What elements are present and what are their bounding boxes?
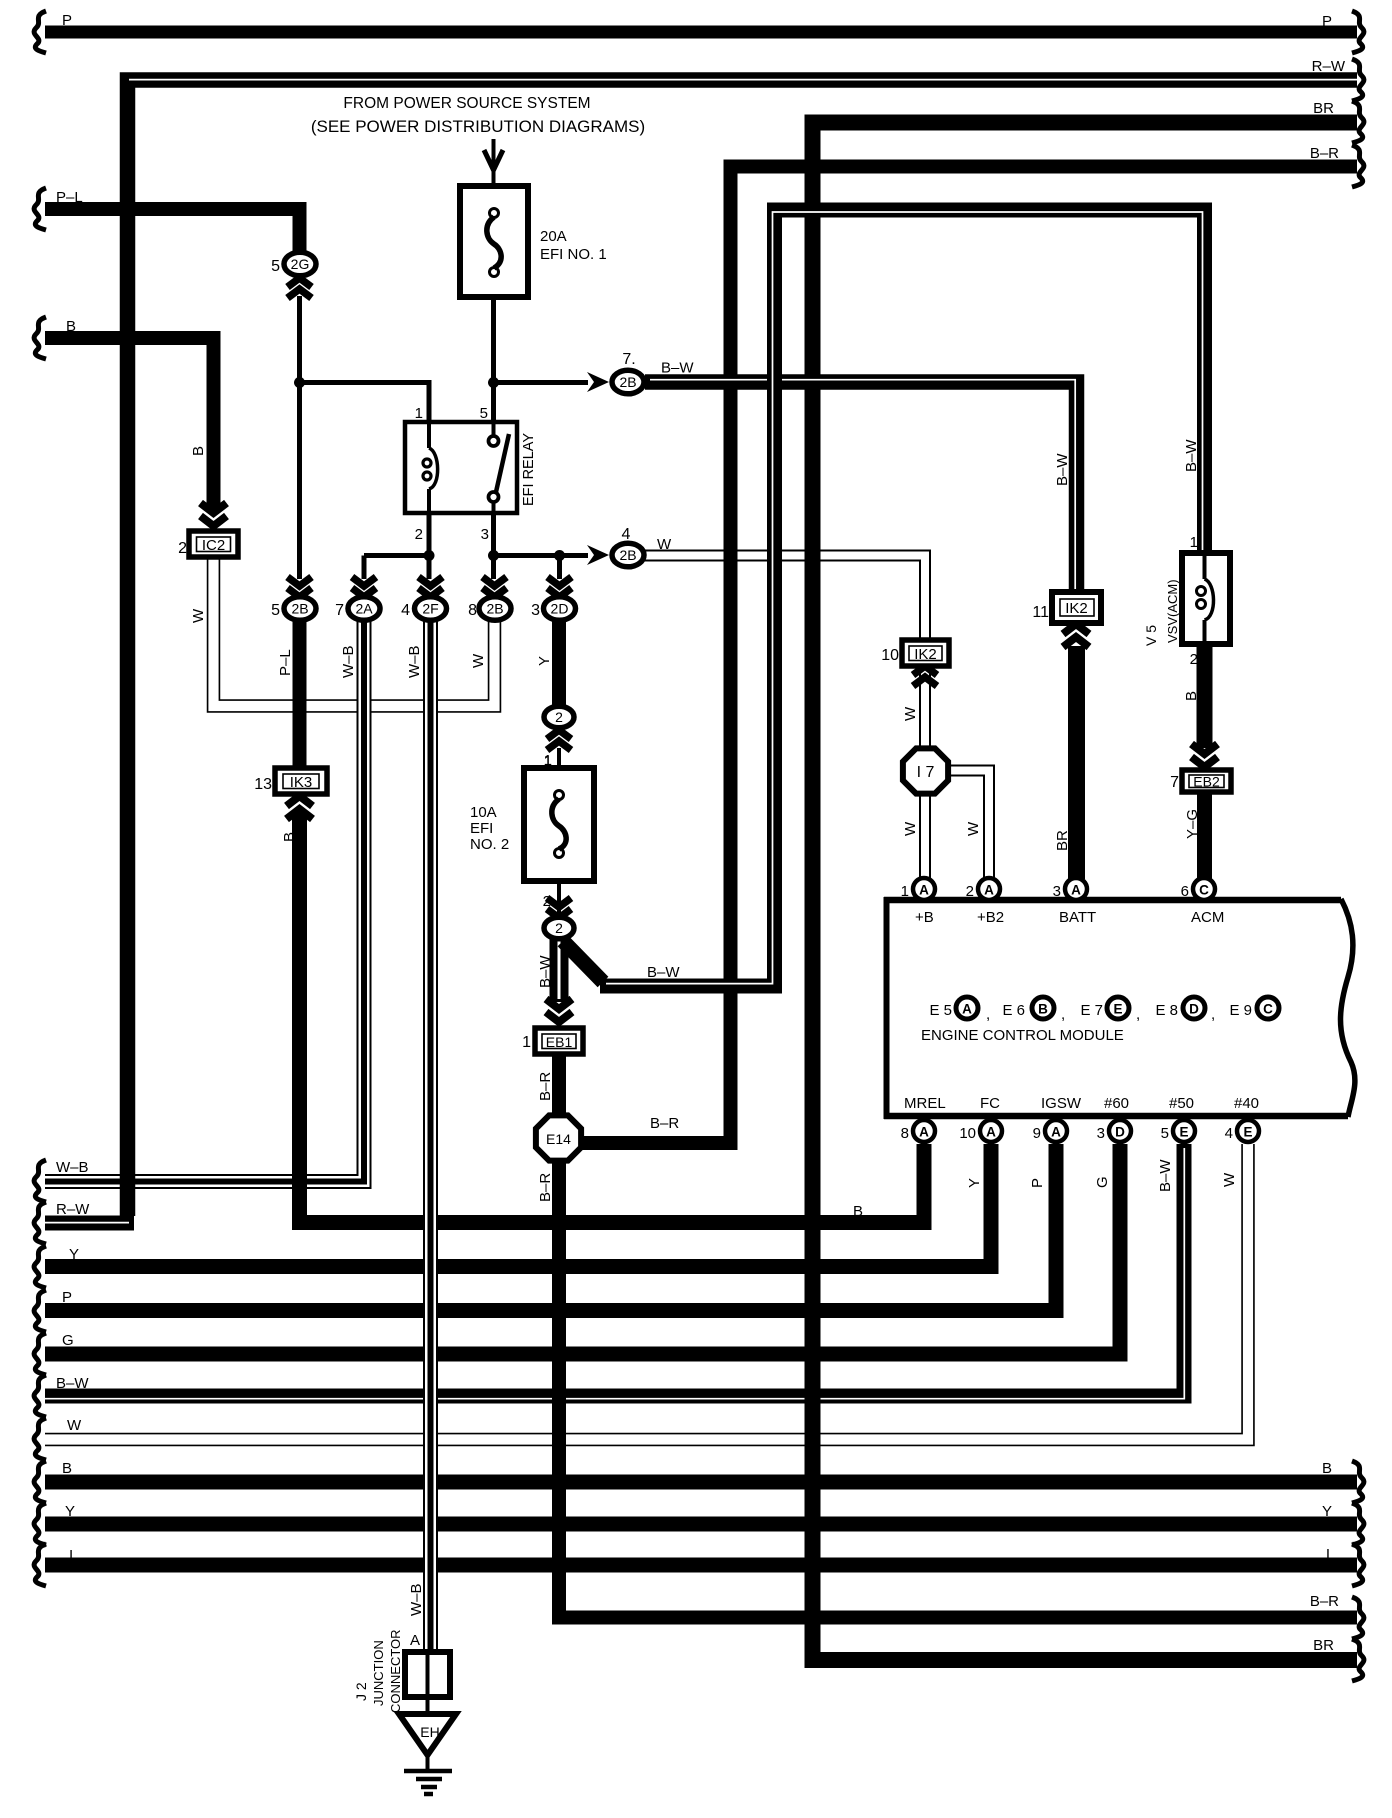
junction node at relay pin3 wire: [488, 550, 499, 561]
svg-text:,: ,: [1061, 1006, 1065, 1023]
bus B left to IC2: [45, 338, 214, 508]
svg-text:A: A: [984, 883, 994, 898]
wire W connector 2B(4) to IK2(10): [643, 556, 925, 644]
connector 2D pin3: [531, 577, 575, 620]
svg-text:(SEE POWER DISTRIBUTION DIAGRA: (SEE POWER DISTRIBUTION DIAGRAMS): [311, 117, 645, 136]
svg-text:2: 2: [1190, 651, 1198, 668]
bus B full width: [45, 1475, 1357, 1490]
ECM internal pin E5 A: [956, 997, 978, 1019]
ECM internal pin E7 E: [1107, 997, 1129, 1019]
svg-text:B–R: B–R: [537, 1072, 554, 1101]
junction connector J2: [353, 1629, 450, 1714]
svg-text:JUNCTION: JUNCTION: [371, 1640, 386, 1706]
svg-text:5: 5: [271, 258, 280, 275]
svg-text:J 2: J 2: [353, 1682, 369, 1701]
connector 2F pin4: [401, 577, 446, 620]
svg-text:10: 10: [881, 647, 899, 664]
svg-text:4: 4: [622, 526, 631, 543]
svg-text:E 8: E 8: [1155, 1002, 1178, 1019]
svg-text:P–L: P–L: [56, 189, 83, 206]
svg-text:B: B: [1322, 1460, 1332, 1477]
svg-text:W–B: W–B: [408, 1583, 425, 1616]
svg-text:Y: Y: [65, 1503, 75, 1520]
svg-text:R–W: R–W: [1312, 58, 1346, 75]
svg-text:B–W: B–W: [1157, 1159, 1174, 1192]
wire B IK3 to ECM pin MREL: [300, 810, 925, 1223]
svg-text:B–R: B–R: [650, 1115, 679, 1132]
svg-text:B–W: B–W: [537, 955, 554, 988]
svg-text:1: 1: [901, 883, 909, 900]
svg-text:IK3: IK3: [290, 774, 313, 791]
svg-text:A: A: [410, 1632, 420, 1649]
svg-text:Y: Y: [1322, 1503, 1332, 1520]
wire Y connector 2D to fuse EFI NO.2: [552, 621, 566, 706]
svg-text:I 7: I 7: [917, 764, 935, 781]
wire W-B connector 2F to junction connector J2: [423, 619, 438, 1653]
junction node at 2G chain / coil feed: [294, 377, 305, 388]
svg-text:V 5: V 5: [1143, 625, 1159, 646]
wire W I7 to ECM pin +B2: [944, 771, 989, 880]
svg-text:7: 7: [1170, 774, 1179, 791]
ECM internal pin E9 C: [1257, 997, 1279, 1019]
wire G ECM pin #60 to left edge: [45, 1144, 1120, 1354]
svg-text:C: C: [1263, 1002, 1273, 1017]
svg-text:1: 1: [1190, 534, 1198, 551]
relay EFI RELAY: [405, 405, 537, 543]
wire W I7 to ECM pin +B: [919, 793, 931, 879]
svg-text:2: 2: [966, 883, 974, 900]
svg-text:BR: BR: [1054, 830, 1071, 851]
svg-text:E 5: E 5: [929, 1002, 952, 1019]
svg-text:+B: +B: [915, 909, 934, 926]
ground EH: [399, 1714, 456, 1794]
connector 2B pin4 arrow W: [587, 526, 672, 567]
svg-text:2: 2: [415, 526, 423, 543]
svg-text:IGSW: IGSW: [1041, 1095, 1082, 1112]
svg-text:B: B: [281, 832, 298, 842]
connector IK3: [254, 768, 327, 819]
bus Y full width: [45, 1517, 1357, 1532]
svg-text:6: 6: [1181, 883, 1189, 900]
svg-text:2A: 2A: [355, 601, 373, 617]
svg-text:13: 13: [254, 776, 272, 793]
wire Y-G EB2 to ECM pin ACM: [1197, 789, 1212, 879]
connector EB1: [522, 999, 583, 1054]
svg-text:FROM POWER SOURCE SYSTEM: FROM POWER SOURCE SYSTEM: [343, 95, 590, 112]
bus P top: [45, 26, 1357, 39]
junction node at relay pin2 wire: [424, 550, 435, 561]
svg-text:3: 3: [531, 602, 540, 619]
svg-text:8: 8: [468, 602, 477, 619]
wire R-W top right to bottom left: [128, 80, 1358, 1216]
bus R-W left: [45, 1216, 134, 1231]
svg-text:B: B: [62, 1460, 72, 1477]
svg-text:5: 5: [1161, 1125, 1169, 1142]
svg-text:7.: 7.: [622, 351, 635, 368]
svg-text:E 9: E 9: [1229, 1002, 1252, 1019]
svg-text:3: 3: [1053, 883, 1061, 900]
svg-text:2G: 2G: [291, 256, 310, 272]
connector E14 octagon: [536, 1115, 581, 1160]
svg-text:Y: Y: [536, 656, 553, 666]
svg-text:ENGINE CONTROL MODULE: ENGINE CONTROL MODULE: [921, 1027, 1124, 1044]
svg-text:3: 3: [481, 526, 489, 543]
svg-text:D: D: [1115, 1125, 1125, 1140]
svg-text:IK2: IK2: [1065, 600, 1088, 617]
bus I full width: [45, 1558, 1357, 1573]
svg-text:P: P: [1322, 13, 1332, 30]
svg-text:BR: BR: [1313, 1637, 1334, 1654]
svg-text:VSV(ACM): VSV(ACM): [1165, 579, 1180, 643]
svg-text:I: I: [69, 1547, 73, 1564]
wire relay coil feed: [300, 383, 430, 424]
svg-text:B: B: [66, 318, 76, 335]
connector 2B pin5: [271, 577, 316, 620]
svg-text:E: E: [1113, 1002, 1122, 1017]
wire Y ECM pin FC to left edge: [45, 1144, 991, 1267]
svg-text:D: D: [1189, 1002, 1199, 1017]
ECM pin 8 MREL: [901, 1120, 935, 1142]
svg-text:A: A: [1071, 883, 1081, 898]
svg-text:EB2: EB2: [1193, 774, 1220, 790]
ECM pin 1 +B: [901, 878, 935, 900]
svg-text:EFI NO. 1: EFI NO. 1: [540, 246, 607, 263]
wire 2G chain: [297, 296, 302, 579]
svg-text:W: W: [190, 608, 207, 623]
svg-text:1: 1: [522, 1034, 531, 1051]
svg-text:,: ,: [1136, 1006, 1140, 1023]
ECM pin 9 IGSW: [1033, 1120, 1067, 1142]
svg-text:,: ,: [986, 1006, 990, 1023]
wire B-W connector 2B(7) to IK2(11): [645, 382, 1077, 594]
svg-text:W: W: [657, 536, 672, 553]
ECM pin 10 FC: [959, 1120, 1002, 1142]
wire B-W branch to connector 2B(7): [494, 380, 589, 385]
fuse 10A EFI NO.2: [470, 752, 594, 910]
svg-text:E 7: E 7: [1080, 1002, 1103, 1019]
svg-text:P: P: [62, 12, 72, 29]
ECM internal pin E6 B: [1032, 997, 1054, 1019]
connector 2B pin8: [468, 577, 511, 620]
svg-text:E: E: [1179, 1125, 1188, 1140]
wire W IK2(10) to I7: [919, 664, 931, 749]
svg-text:I: I: [1326, 1546, 1330, 1563]
svg-text:E14: E14: [546, 1131, 571, 1147]
ECM pin 4 #40: [1225, 1120, 1259, 1142]
wire from power source to fuse EFI NO.1: [492, 139, 496, 186]
svg-text:B: B: [1183, 691, 1200, 701]
svg-text:W–B: W–B: [56, 1159, 89, 1176]
svg-text:B–W: B–W: [661, 360, 694, 377]
wire P-L connector 2B(5) to IK3: [293, 621, 307, 769]
svg-text:7: 7: [335, 602, 344, 619]
svg-text:9: 9: [1033, 1125, 1041, 1142]
ECM engine control module box: [884, 897, 1355, 1119]
ECM pin 3 BATT: [1053, 878, 1087, 900]
svg-text:5: 5: [480, 405, 488, 422]
svg-text:EH: EH: [420, 1724, 439, 1740]
wire relay pin 3 group: [491, 512, 496, 579]
svg-text:G: G: [62, 1332, 74, 1349]
ECM pin 3 #60: [1097, 1120, 1131, 1142]
svg-text:B–W: B–W: [1183, 439, 1200, 472]
wire P ECM pin IGSW to left edge: [45, 1144, 1056, 1311]
svg-text:11: 11: [1032, 604, 1049, 621]
svg-text:EFI RELAY: EFI RELAY: [521, 433, 537, 506]
wire W-B connector 2A to left edge: [45, 619, 364, 1182]
svg-text:A: A: [919, 883, 929, 898]
VSV(ACM) V5: [1143, 534, 1230, 668]
svg-text:G: G: [1094, 1176, 1111, 1188]
svg-text:MREL: MREL: [904, 1095, 946, 1112]
svg-text:#40: #40: [1234, 1095, 1259, 1112]
wire B-W jog from connector 2 to VSV: [563, 941, 603, 982]
svg-text:EB1: EB1: [546, 1034, 573, 1050]
junction node at relay pin5 / B-W branch: [488, 377, 499, 388]
ECM pin 5 #50: [1161, 1120, 1195, 1142]
connector 2 lower: [544, 898, 574, 939]
right edge braces: [1352, 11, 1364, 53]
svg-text:C: C: [1199, 883, 1209, 898]
svg-text:E: E: [1243, 1125, 1252, 1140]
svg-text:W–B: W–B: [340, 645, 357, 678]
wire W ECM pin #40 to left edge: [45, 1142, 1248, 1440]
svg-text:A: A: [919, 1125, 929, 1140]
svg-text:Y: Y: [966, 1178, 983, 1188]
wire B-W connector 2 to EB1: [550, 939, 569, 1002]
ECM pin 6 ACM: [1181, 878, 1215, 900]
svg-text:2F: 2F: [422, 601, 438, 617]
connector 2A pin7: [335, 577, 380, 620]
svg-text:B–W: B–W: [647, 964, 680, 981]
svg-text:2: 2: [178, 540, 187, 557]
junction node at 2D branch: [554, 550, 565, 561]
svg-text:20A: 20A: [540, 228, 567, 245]
svg-text:5: 5: [271, 602, 280, 619]
svg-text:2B: 2B: [619, 374, 636, 390]
svg-text:CONNECTOR: CONNECTOR: [388, 1629, 403, 1713]
wire B VSV to EB2: [1197, 642, 1213, 748]
fuse 20A EFI NO.1: [460, 186, 607, 297]
ECM internal pin E8 D: [1183, 997, 1205, 1019]
svg-text:3: 3: [1097, 1125, 1105, 1142]
svg-text:W: W: [902, 706, 919, 721]
svg-text:B–R: B–R: [1310, 145, 1339, 162]
svg-text:Y–G: Y–G: [1184, 809, 1201, 839]
svg-text:2D: 2D: [551, 601, 569, 617]
svg-text:W: W: [965, 821, 982, 836]
svg-text:P: P: [62, 1289, 72, 1306]
svg-text:W–B: W–B: [406, 645, 423, 678]
svg-text:10: 10: [959, 1125, 976, 1142]
svg-text:NO. 2: NO. 2: [470, 836, 509, 853]
wire fuse EFI NO.1 to relay pin 5: [491, 296, 496, 423]
svg-text:W: W: [67, 1417, 82, 1434]
svg-text:EFI: EFI: [470, 820, 493, 837]
svg-text:Y: Y: [69, 1246, 79, 1263]
svg-text:2: 2: [555, 709, 563, 725]
svg-text:B: B: [190, 446, 207, 456]
ECM pin 2 +B2: [966, 878, 1000, 900]
connector I7 octagon: [903, 748, 948, 793]
wire B-W ECM pin #50 to left edge: [45, 1144, 1184, 1396]
connector 2B pin7 arrow B-W: [587, 351, 694, 394]
left edge braces: [34, 11, 46, 53]
wire W IC2 to connector 2B(8): [214, 554, 495, 706]
svg-text:,: ,: [1211, 1006, 1215, 1023]
svg-text:W: W: [1221, 1172, 1238, 1187]
wire BR IK2(11) to ECM pin BATT: [1068, 646, 1085, 879]
connector IK2 pin10: [881, 640, 949, 686]
svg-text:B–R: B–R: [1310, 1593, 1339, 1610]
svg-text:B–W: B–W: [56, 1375, 89, 1392]
connector 2G: [271, 252, 316, 298]
wire B-R E14 down to right edge: [559, 1161, 1357, 1618]
connector IK2 pin11: [1032, 592, 1101, 647]
wire B-R EB1 to E14: [552, 1052, 566, 1115]
svg-text:FC: FC: [980, 1095, 1000, 1112]
svg-text:+B2: +B2: [977, 909, 1004, 926]
wire relay pin 2 group: [427, 512, 432, 556]
svg-text:B: B: [853, 1203, 863, 1220]
svg-text:2: 2: [555, 920, 563, 936]
connector IC2: [178, 503, 238, 557]
svg-text:A: A: [962, 1002, 972, 1017]
svg-text:ACM: ACM: [1191, 909, 1224, 926]
svg-text:2B: 2B: [486, 601, 503, 617]
svg-text:A: A: [986, 1125, 996, 1140]
svg-text:E 6: E 6: [1002, 1002, 1025, 1019]
svg-text:P: P: [1029, 1178, 1046, 1188]
svg-text:BATT: BATT: [1059, 909, 1096, 926]
svg-text:4: 4: [1225, 1125, 1233, 1142]
svg-text:1: 1: [544, 753, 552, 770]
svg-text:2B: 2B: [619, 547, 636, 563]
svg-text:B–W: B–W: [1054, 453, 1071, 486]
svg-text:1: 1: [415, 405, 423, 422]
svg-text:B: B: [1038, 1002, 1048, 1017]
svg-text:BR: BR: [1313, 100, 1334, 117]
svg-text:R–W: R–W: [56, 1201, 90, 1218]
connector EB2: [1170, 744, 1231, 792]
svg-text:W: W: [470, 653, 487, 668]
svg-text:4: 4: [401, 602, 410, 619]
svg-text:IC2: IC2: [202, 537, 225, 554]
svg-text:A: A: [1051, 1125, 1061, 1140]
svg-text:W: W: [902, 821, 919, 836]
svg-text:8: 8: [901, 1125, 909, 1142]
svg-text:B–R: B–R: [537, 1173, 554, 1202]
wire B-R E14 right to top right edge: [582, 167, 1357, 1144]
svg-text:10A: 10A: [470, 804, 497, 821]
wire BR top right to bottom right: [813, 123, 1358, 1661]
svg-text:#50: #50: [1169, 1095, 1194, 1112]
svg-text:2B: 2B: [291, 601, 308, 617]
svg-text:P–L: P–L: [277, 649, 294, 676]
bus P-L left: [45, 209, 300, 251]
svg-text:#60: #60: [1104, 1095, 1129, 1112]
svg-text:IK2: IK2: [914, 646, 937, 663]
connector 2 upper: [544, 706, 574, 770]
